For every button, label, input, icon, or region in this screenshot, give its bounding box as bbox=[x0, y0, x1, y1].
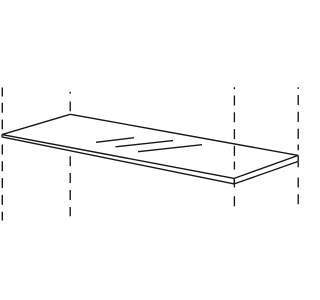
shelf back top edge B-C bbox=[70, 114, 298, 155]
shelf right top edge D-C bbox=[234, 155, 298, 178]
dashed guide line 4 (right cabinet side, x=298, drawn over glass) bbox=[297, 87, 299, 204]
shelf right bottom edge D'-C' bbox=[234, 161, 298, 184]
shelf back-left top edge A-B bbox=[2, 114, 70, 134]
dashed guide line 1 lower run bbox=[1, 145, 3, 221]
shelf left corner edge A-A' bbox=[1, 135, 3, 137]
shelf front corner edge D-D' bbox=[233, 178, 235, 184]
dashed guide line 1 (left cabinet side, x=2.3) upper run bbox=[1, 88, 3, 130]
shelf right corner edge C-C' bbox=[297, 155, 299, 161]
dashed guide line 3 (x=234.4, drawn over glass) bbox=[233, 87, 235, 206]
shelf body white fill bbox=[2, 114, 298, 184]
shelf front bottom edge A'-D' bbox=[2, 137, 234, 184]
glass shine mark 3 bbox=[138, 145, 202, 152]
dashed guide line 2 (x=70.2) upper run bbox=[69, 92, 71, 112]
dashed guide line 2 lower run bbox=[69, 156, 71, 216]
glass shine mark 1 bbox=[96, 138, 134, 143]
shelf front top edge A-D bbox=[2, 135, 234, 179]
glass shine mark 2 bbox=[116, 141, 174, 147]
